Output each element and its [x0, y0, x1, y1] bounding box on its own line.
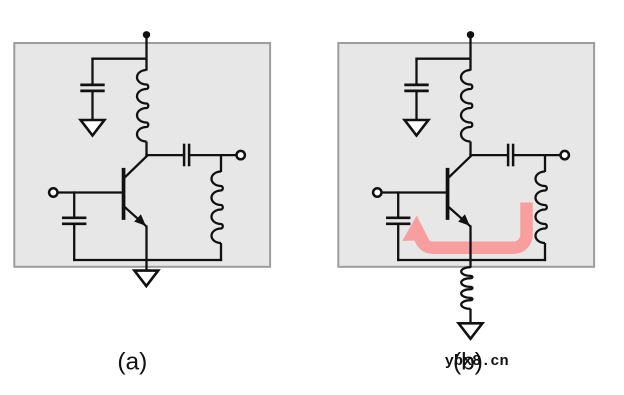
wire: RFC to collector node (a)	[145, 142, 147, 158]
wire: bypass branch vertical (b)	[415, 58, 417, 86]
wire: RFC to collector node (b)	[469, 142, 471, 158]
transistor Q (a): emitter arrow	[134, 214, 146, 226]
enclosure box (b)	[338, 43, 594, 267]
ground: external emitter ground (b)	[459, 323, 483, 339]
wire: supply branch to bypass capacitor (a)	[91, 58, 146, 60]
wire: coupling capacitor to output (b)	[513, 154, 561, 156]
wire: base branch down to capacitor (b)	[397, 191, 399, 218]
inductor: collector RFC (a)	[137, 70, 148, 142]
wire: supply to RFC (a)	[145, 35, 147, 71]
wire: supply to RFC (b)	[469, 35, 471, 71]
feedback capacitor (a)	[62, 216, 86, 219]
wire: input to base (b)	[381, 191, 446, 193]
transistor Q (a): collector lead	[125, 156, 148, 178]
inductor: tank/output (a)	[212, 172, 223, 244]
wire: collector node to coupling capacitor (a)	[145, 154, 183, 156]
supply node dot (b)	[467, 31, 474, 38]
wire: coupling capacitor to output (a)	[189, 154, 237, 156]
inductor: collector RFC (b)	[461, 70, 472, 142]
inductor: tank/output (b)	[536, 172, 547, 244]
input terminal (b)	[373, 188, 381, 196]
wire: collector node to coupling capacitor (b)	[469, 154, 507, 156]
wire: output node to tank inductor (a)	[220, 154, 222, 172]
coupling capacitor (b)	[507, 144, 510, 167]
ground: bypass (a)	[81, 120, 105, 136]
bypass capacitor (a)	[80, 84, 104, 87]
transistor Q (b): emitter arrow	[458, 214, 470, 226]
wire: emitter to ground (a)	[145, 226, 147, 271]
svg-text:(a): (a)	[117, 348, 147, 375]
feedback arrow (pink)	[402, 203, 526, 248]
wire: bypass branch vertical (a)	[91, 58, 93, 86]
input terminal (a)	[49, 188, 57, 196]
bypass capacitor (b)	[404, 84, 428, 87]
transistor Q (b): emitter lead	[449, 207, 471, 226]
wire: bypass capacitor to ground (b)	[415, 91, 417, 120]
wire: supply branch to bypass capacitor (b)	[415, 58, 470, 60]
wire: tank inductor to bottom rail (b)	[544, 243, 546, 261]
transistor Q (b): base bar	[446, 168, 450, 220]
wire: emitter inductor to ground (b)	[469, 309, 471, 324]
transistor Q (a): emitter lead	[125, 207, 147, 226]
transistor Q (b): collector lead	[449, 156, 472, 178]
output terminal (b)	[561, 151, 569, 159]
wire: feedback capacitor to bottom rail (b)	[397, 224, 399, 261]
wire: input to base (a)	[57, 191, 122, 193]
wire: base branch down to capacitor (a)	[73, 191, 75, 218]
wire: bottom rail (b)	[397, 259, 546, 261]
inductor: emitter degeneration (b)	[461, 267, 472, 309]
transistor Q (a): base bar	[122, 168, 126, 220]
output terminal (a)	[237, 151, 245, 159]
svg-text:ybx8.cn: ybx8.cn	[445, 352, 509, 370]
wire: output node to tank inductor (b)	[544, 154, 546, 172]
coupling capacitor (a)	[183, 144, 186, 167]
wire: emitter down through rail (b)	[469, 226, 471, 268]
wire: bottom rail (a)	[73, 259, 222, 261]
ground: bypass (b)	[405, 120, 429, 136]
feedback capacitor (b)	[386, 216, 410, 219]
supply node dot (a)	[143, 31, 150, 38]
wire: bypass capacitor to ground (a)	[91, 91, 93, 120]
wire: feedback capacitor to bottom rail (a)	[73, 224, 75, 261]
ground: emitter (a)	[134, 271, 158, 287]
enclosure box (a)	[14, 43, 270, 267]
wire: tank inductor to bottom rail (a)	[220, 243, 222, 261]
